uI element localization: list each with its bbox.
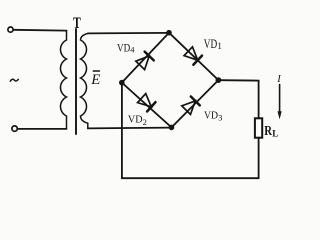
label VD3 — [204, 110, 222, 123]
AC source symbol ~ — [10, 79, 18, 81]
resistor RL — [255, 118, 262, 137]
label VD4 — [117, 43, 135, 55]
svg-text:VD: VD — [204, 37, 217, 51]
svg-text:I: I — [276, 74, 281, 85]
wire from bottom terminal to primary — [18, 128, 67, 130]
node bottom (junction dot) — [169, 125, 175, 131]
diode VD4 (left node to top node) — [136, 52, 154, 70]
bridge edge: bottom node to right node — [172, 80, 219, 127]
transformer T primary winding — [60, 31, 66, 129]
node right (junction dot) — [216, 77, 222, 83]
node left (junction dot) — [119, 80, 125, 86]
wire resistor bottom to return rail — [258, 138, 260, 179]
wire left node down (DC-) — [121, 85, 123, 178]
current arrow I (line) — [279, 85, 281, 114]
diode VD2 (left node to bottom node) — [137, 93, 155, 111]
label VD2 — [128, 114, 147, 127]
bridge edge: left node to top node — [122, 33, 169, 83]
label T — [73, 15, 81, 32]
overbar of E — [93, 70, 99, 72]
svg-text:4: 4 — [130, 45, 135, 55]
node top (junction dot) — [166, 30, 172, 36]
wire right node to load (DC+) — [221, 80, 259, 118]
terminal (top-left input) — [8, 27, 13, 32]
bridge edge: left node to bottom node — [122, 83, 172, 128]
bridge edge: top node to right node — [169, 33, 218, 80]
wire secondary bottom to bridge bottom node (AC input) — [88, 127, 172, 130]
svg-text:T: T — [73, 15, 81, 32]
diode VD3 (bottom node to right node) — [182, 96, 200, 114]
terminal (bottom-left input) — [12, 126, 17, 131]
transformer secondary winding — [81, 33, 89, 128]
label VD1 — [204, 37, 222, 51]
wire from top terminal to primary — [13, 29, 66, 32]
diode VD1 (top node to right node) — [184, 47, 202, 65]
label E (secondary EMF, with overbar) — [90, 72, 100, 88]
wire secondary top to bridge top node — [88, 32, 169, 35]
svg-text:E: E — [90, 72, 100, 88]
svg-text:2: 2 — [143, 117, 147, 127]
svg-text:1: 1 — [217, 41, 222, 51]
svg-text:3: 3 — [218, 113, 222, 123]
svg-text:L: L — [272, 128, 278, 138]
transformer core — [75, 29, 77, 134]
wire bottom return rail — [122, 177, 259, 179]
svg-text:VD: VD — [204, 110, 218, 122]
current arrow I (head) — [278, 111, 282, 119]
label I — [276, 74, 281, 85]
svg-text:VD: VD — [128, 114, 143, 126]
label RL — [264, 124, 278, 139]
svg-text:VD: VD — [117, 43, 130, 55]
